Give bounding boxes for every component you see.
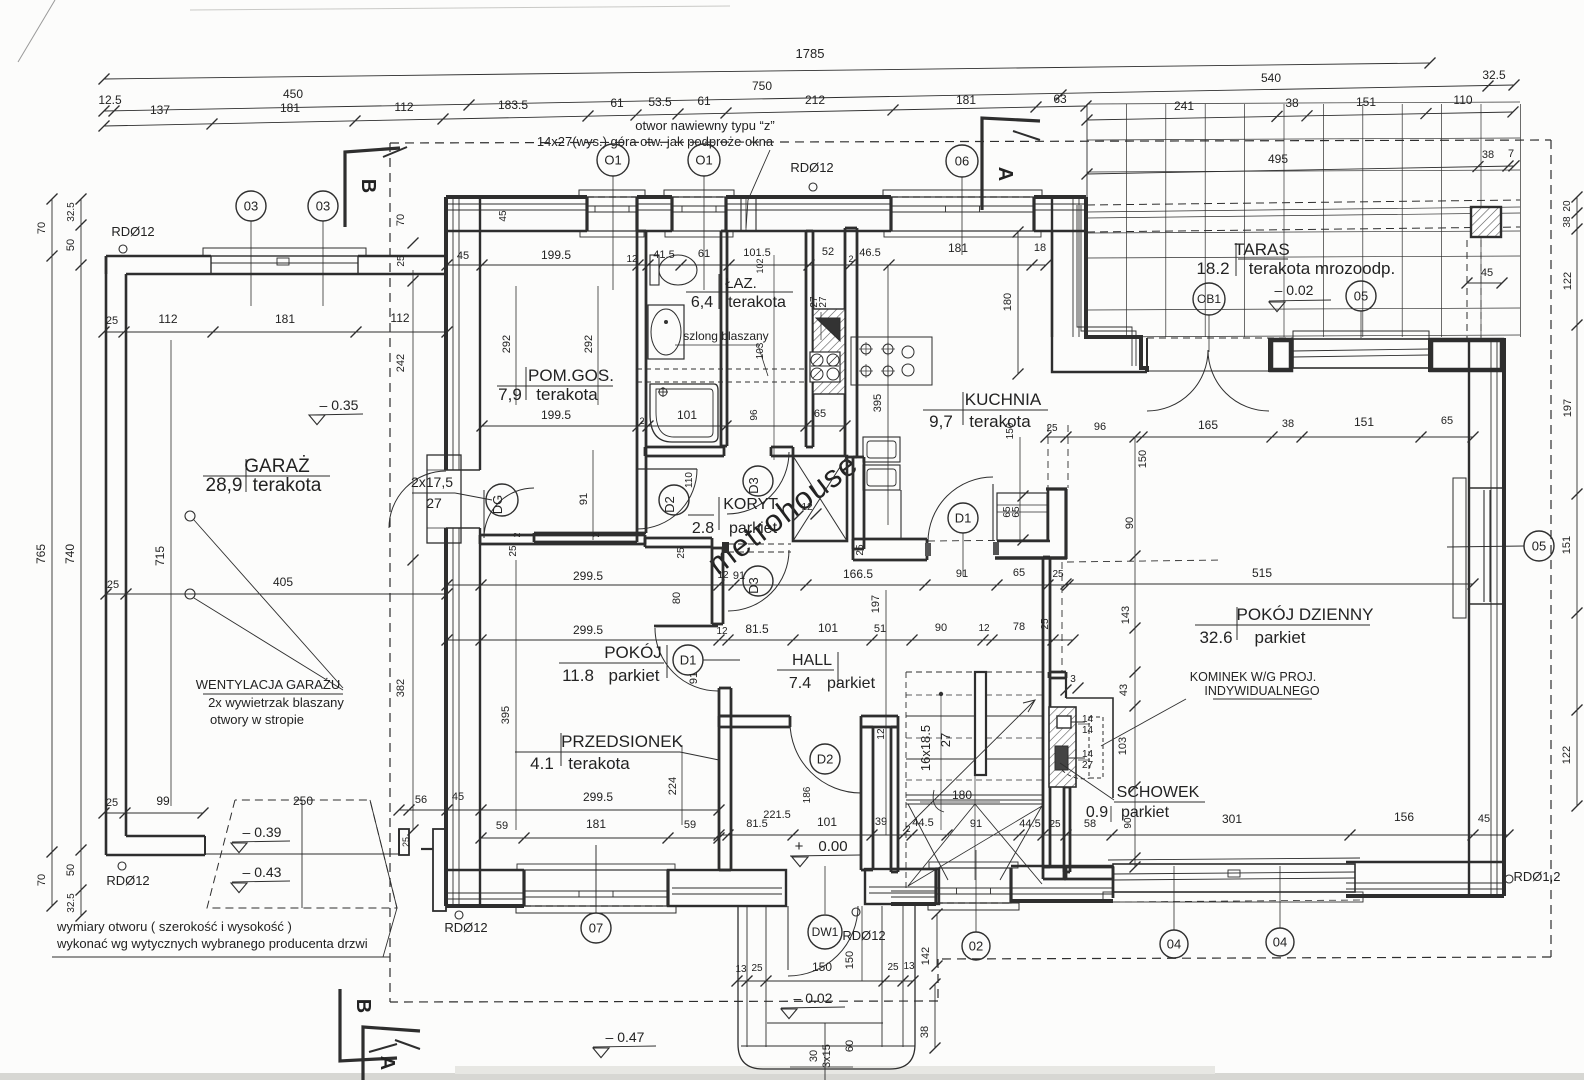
svg-text:221.5: 221.5 — [763, 809, 791, 821]
svg-text:GARAŻ: GARAŻ — [244, 456, 310, 477]
dim chain row2 12.5/450/750/540/32.5 — [104, 85, 1514, 111]
kitchen counter — [851, 337, 932, 385]
south wall schowek part — [1011, 899, 1113, 903]
schowek outline — [1066, 698, 1113, 798]
bubble 07 — [581, 913, 611, 943]
bath room label — [718, 274, 720, 309]
svg-text:450: 450 — [283, 87, 303, 101]
svg-text:183.5: 183.5 — [498, 98, 528, 112]
house west wall — [444, 197, 448, 470]
svg-text:13: 13 — [903, 961, 915, 972]
svg-text:05: 05 — [1354, 289, 1368, 304]
svg-text:9,7: 9,7 — [929, 412, 953, 431]
svg-text:– 0.43: – 0.43 — [243, 864, 282, 880]
door D3 hall — [728, 550, 789, 611]
door D1 kitchen — [928, 477, 993, 542]
svg-text:45: 45 — [452, 791, 464, 803]
svg-text:2: 2 — [848, 254, 853, 264]
svg-text:parkiet: parkiet — [729, 520, 778, 537]
dim chain terrace top 241/38/151/110 — [1087, 112, 1513, 120]
przedsionek north wall — [719, 715, 790, 718]
svg-text:KUCHNIA: KUCHNIA — [965, 390, 1042, 409]
bubble 04 a — [1160, 930, 1188, 958]
svg-text:142: 142 — [920, 947, 932, 965]
svg-text:INDYWIDUALNEGO: INDYWIDUALNEGO — [1204, 684, 1320, 698]
svg-text:POKÓJ DZIENNY: POKÓJ DZIENNY — [1237, 605, 1374, 624]
pokoj dzienny room label — [1236, 607, 1238, 640]
svg-text:45: 45 — [498, 210, 509, 222]
svg-text:27: 27 — [938, 733, 953, 747]
side door arc into garage — [389, 471, 446, 528]
svg-text:DW1: DW1 — [812, 925, 839, 939]
svg-text:30: 30 — [808, 1050, 820, 1062]
svg-text:terakota: terakota — [536, 385, 598, 404]
svg-text:78: 78 — [1013, 621, 1025, 633]
door D1 kitchen leaf — [992, 484, 994, 541]
svg-text:740: 740 — [63, 544, 77, 564]
stairs center line — [974, 775, 976, 880]
stairs winder fan — [908, 804, 975, 886]
koryt X closet — [793, 456, 847, 541]
terrace bottom dashed edge — [1087, 337, 1293, 339]
svg-text:103: 103 — [1117, 737, 1129, 755]
door D2 pomgos-koryt — [637, 468, 697, 470]
svg-text:70: 70 — [395, 214, 407, 226]
svg-text:495: 495 — [1268, 152, 1288, 166]
svg-text:ŁAZ.: ŁAZ. — [725, 275, 757, 292]
svg-text:RDØ12: RDØ12 — [842, 928, 885, 943]
svg-text:65: 65 — [1441, 415, 1453, 427]
svg-text:1785: 1785 — [796, 46, 825, 61]
svg-text:44.5: 44.5 — [1019, 818, 1040, 830]
svg-text:25: 25 — [106, 797, 118, 809]
svg-text:A: A — [994, 167, 1016, 181]
garage interior dim 25/405 — [106, 593, 447, 595]
svg-text:25: 25 — [676, 547, 687, 559]
svg-text:14: 14 — [1082, 725, 1094, 736]
svg-text:25: 25 — [887, 962, 899, 973]
svg-text:91: 91 — [956, 568, 968, 580]
dim row pomgos 199.5 mid — [482, 425, 845, 427]
garage dim 715 — [170, 340, 172, 806]
bubble O1 a — [597, 144, 629, 176]
svg-text:terakota mrozoodp.: terakota mrozoodp. — [1249, 259, 1395, 278]
svg-text:parkiet: parkiet — [608, 666, 659, 685]
svg-text:53.5: 53.5 — [648, 95, 672, 109]
svg-text:D2: D2 — [662, 496, 677, 513]
svg-text:299.5: 299.5 — [573, 569, 603, 583]
svg-text:180: 180 — [1002, 293, 1014, 311]
svg-text:103: 103 — [755, 342, 766, 359]
svg-text:90: 90 — [1123, 817, 1134, 829]
svg-text:03: 03 — [316, 199, 330, 214]
door D2 przedsionek — [790, 722, 861, 793]
svg-text:59: 59 — [496, 820, 508, 832]
svg-text:25: 25 — [401, 837, 411, 847]
terrace dashed lines — [1087, 200, 1520, 205]
kominek leader — [1101, 699, 1186, 746]
svg-text:45: 45 — [457, 250, 469, 262]
svg-text:61: 61 — [610, 96, 624, 110]
svg-text:– 0.02: – 0.02 — [794, 990, 833, 1006]
south wall entry pier right — [865, 869, 939, 904]
south wall SE corner — [1346, 894, 1504, 898]
svg-text:46.5: 46.5 — [859, 247, 880, 259]
dim chain living vert 150/90/143/43/103/90 — [1134, 437, 1136, 867]
svg-text:165: 165 — [1198, 418, 1218, 432]
stairs treads dashed — [906, 694, 1043, 696]
svg-text:199.5: 199.5 — [541, 408, 571, 422]
terrace column hatched — [1471, 207, 1501, 237]
svg-text:PRZEDSIONEK: PRZEDSIONEK — [561, 732, 684, 751]
dim rot 382 west — [412, 560, 414, 830]
svg-text:D1: D1 — [955, 511, 972, 526]
svg-text:299.5: 299.5 — [583, 790, 613, 804]
svg-text:395: 395 — [500, 706, 512, 724]
svg-text:14: 14 — [1082, 714, 1094, 725]
svg-text:122: 122 — [1562, 272, 1574, 290]
svg-text:SCHOWEK: SCHOWEK — [1117, 784, 1200, 801]
svg-text:90: 90 — [1124, 517, 1136, 529]
svg-text:382: 382 — [395, 679, 407, 697]
bubble O1 b — [688, 144, 720, 176]
svg-text:405: 405 — [273, 575, 293, 589]
svg-text:7.4: 7.4 — [789, 675, 811, 692]
svg-text:HALL: HALL — [792, 652, 832, 669]
house east wall — [1502, 338, 1506, 896]
svg-text:32.6: 32.6 — [1199, 628, 1232, 647]
terrace grid — [1086, 104, 1088, 337]
wall pomgos/bath — [636, 231, 639, 533]
svg-text:151: 151 — [1356, 95, 1376, 109]
svg-text:90: 90 — [935, 622, 947, 634]
svg-text:38: 38 — [1282, 418, 1294, 430]
svg-text:POKÓJ: POKÓJ — [604, 643, 662, 662]
svg-text:110: 110 — [684, 472, 695, 488]
svg-text:515: 515 — [1252, 566, 1272, 580]
bubble 03 a — [236, 191, 266, 221]
left dim chain 70/765/70 — [51, 199, 53, 906]
section marker B bottom — [340, 989, 397, 1061]
svg-text:181: 181 — [586, 817, 606, 831]
svg-text:wykonać wg wytycznych wybra: wykonać wg wytycznych wybranego producen… — [56, 936, 368, 951]
svg-text:212: 212 — [805, 93, 825, 107]
svg-text:540: 540 — [1261, 71, 1281, 85]
stair west wall — [890, 727, 893, 872]
stairs direction arrow — [903, 700, 1035, 831]
svg-text:A: A — [376, 1056, 398, 1070]
kitchen-terrace step wall — [1086, 197, 1147, 372]
svg-text:14: 14 — [1082, 749, 1094, 760]
svg-text:32.5: 32.5 — [66, 893, 77, 913]
dim 515 living — [1066, 583, 1473, 585]
svg-text:166.5: 166.5 — [843, 567, 873, 581]
leader trapezoid to note — [370, 800, 397, 957]
svg-text:POM.GOS.: POM.GOS. — [528, 366, 614, 385]
garage vent symbol 1 — [185, 511, 195, 521]
door DW1 entry — [788, 906, 858, 976]
svg-text:45: 45 — [1478, 813, 1490, 825]
stairs landing double line — [906, 799, 1043, 801]
garage room label — [203, 475, 330, 477]
svg-text:63: 63 — [1053, 92, 1067, 106]
svg-text:250: 250 — [293, 794, 313, 808]
dim row kitchen top 52/46.5/181/18 done above; kitchen-living 25/96/165/38/151/65 — [1046, 436, 1473, 438]
svg-text:parkiet: parkiet — [827, 675, 876, 692]
svg-text:6,4: 6,4 — [691, 294, 713, 311]
garage top wall — [106, 255, 211, 258]
svg-text:7: 7 — [1508, 148, 1514, 160]
svg-text:wymiary otworu ( szerokość: wymiary otworu ( szerokość i wysokość ) — [56, 919, 292, 934]
entry porch outline — [738, 906, 915, 1069]
svg-text:otwory w stropie: otwory w stropie — [210, 712, 304, 727]
kitchen/hall wall south — [853, 538, 927, 541]
kitchen hob burners — [861, 344, 871, 354]
svg-text:25: 25 — [396, 255, 407, 267]
bubble 05 terrace — [1346, 281, 1376, 311]
svg-text:25: 25 — [1040, 618, 1051, 630]
svg-text:D3: D3 — [746, 577, 761, 594]
svg-text:292: 292 — [583, 335, 595, 353]
svg-text:25: 25 — [106, 315, 118, 327]
hall room label — [837, 652, 839, 685]
stair entry step rect — [427, 455, 461, 543]
svg-text:50: 50 — [65, 864, 77, 876]
dim rot 197 hall — [885, 590, 887, 835]
svg-text:80: 80 — [671, 592, 683, 604]
svg-text:RDØ12: RDØ12 — [106, 873, 149, 888]
kitchen counter edge line — [900, 490, 902, 540]
svg-text:110: 110 — [1453, 93, 1472, 107]
svg-text:RDØ12: RDØ12 — [790, 160, 833, 175]
bubble 04 b — [1266, 928, 1294, 956]
svg-text:150: 150 — [812, 960, 832, 974]
window 02 stairwell — [928, 903, 1019, 910]
window O1 b — [664, 190, 734, 197]
svg-text:0.00: 0.00 — [818, 838, 847, 855]
svg-text:D3: D3 — [746, 477, 761, 494]
svg-text:szlong blaszany: szlong blaszany — [683, 329, 768, 343]
svg-text:D2: D2 — [817, 752, 834, 767]
svg-text:otwor nawiewny typu “z”: otwor nawiewny typu “z” — [635, 118, 774, 133]
kitchen closet 65x65 — [997, 493, 1047, 540]
svg-text:4.1: 4.1 — [530, 754, 554, 773]
svg-text:12: 12 — [876, 728, 887, 740]
przedsionek room label — [560, 733, 562, 766]
svg-text:61: 61 — [697, 94, 711, 108]
svg-text:38: 38 — [919, 1026, 931, 1038]
door D1 pokoj — [654, 625, 718, 628]
svg-text:parkiet: parkiet — [1254, 628, 1305, 647]
svg-text:12: 12 — [978, 623, 990, 634]
garage door trapezoid dashed — [207, 800, 397, 908]
svg-text:151: 151 — [1354, 415, 1374, 429]
dim row przedsionek 299.5 bottom + 56/45 — [399, 809, 719, 811]
living north wall piers — [1271, 340, 1291, 370]
svg-text:2x17,5: 2x17,5 — [411, 474, 453, 490]
svg-text:05: 05 — [1532, 539, 1546, 554]
svg-text:B: B — [357, 179, 379, 193]
svg-text:242: 242 — [395, 354, 407, 372]
bubble 06 — [946, 145, 978, 177]
svg-text:12: 12 — [717, 570, 729, 581]
house top wall — [446, 195, 587, 199]
svg-text:– 0.02: – 0.02 — [1275, 282, 1314, 298]
svg-text:51: 51 — [874, 623, 886, 635]
terrace dashed vertical near column — [1466, 240, 1468, 338]
svg-text:2: 2 — [591, 532, 601, 537]
svg-text:299.5: 299.5 — [573, 623, 603, 637]
dim rot 224 przedsionek — [681, 745, 683, 825]
bath tub — [650, 384, 718, 442]
svg-text:2.8: 2.8 — [692, 520, 714, 537]
stairs middle wall — [975, 672, 986, 775]
roof outline dashed — [390, 140, 1551, 143]
koryt room label — [718, 497, 720, 530]
fireplace dashed box — [1089, 717, 1103, 778]
terrace dim 45 — [1467, 282, 1502, 284]
dim row window07 59/181/59 — [481, 837, 719, 839]
svg-text:04: 04 — [1167, 937, 1181, 952]
wall bath east / shaft — [805, 231, 808, 447]
svg-text:OB1: OB1 — [1197, 292, 1221, 306]
svg-text:2: 2 — [639, 416, 644, 426]
svg-text:terakota: terakota — [728, 294, 786, 311]
vent opening 14x27 in wall — [741, 197, 756, 231]
svg-text:181: 181 — [956, 93, 976, 107]
svg-text:03: 03 — [244, 199, 258, 214]
svg-text:99: 99 — [156, 794, 170, 808]
svg-text:101: 101 — [677, 408, 697, 422]
stairs treads solid — [906, 715, 1043, 717]
window 04 band living — [1108, 858, 1360, 860]
svg-text:56: 56 — [415, 794, 427, 806]
svg-text:151: 151 — [1561, 536, 1573, 554]
dim chain terrace 495/38/7 — [1087, 166, 1514, 174]
schowek top wall — [1049, 671, 1066, 674]
bubble 03 b — [308, 191, 338, 221]
svg-text:– 0.47: – 0.47 — [606, 1029, 645, 1045]
svg-text:43: 43 — [1118, 684, 1130, 696]
svg-text:102: 102 — [755, 258, 765, 273]
svg-text:WENTYLACJA GARAŻU: WENTYLACJA GARAŻU — [196, 677, 340, 692]
svg-text:terakota: terakota — [969, 412, 1031, 431]
svg-text:39: 39 — [875, 816, 887, 828]
terrace door OB1 opening jambs — [1268, 338, 1270, 372]
svg-text:13: 13 — [735, 964, 747, 975]
window O1 a — [579, 190, 645, 197]
svg-text:RDØ12: RDØ12 — [111, 224, 154, 239]
svg-text:44.5: 44.5 — [912, 817, 933, 829]
svg-text:38: 38 — [1482, 149, 1494, 161]
svg-text:B: B — [352, 999, 374, 1013]
svg-text:395: 395 — [872, 394, 884, 412]
pokoj room label — [666, 645, 668, 678]
porch dims 13 25 150 25 13 — [737, 980, 913, 982]
garage left wall — [105, 256, 108, 855]
svg-text:07: 07 — [589, 921, 603, 936]
dim row hall/koryt 299.5/2/91/166.5/91/65/25 — [447, 584, 1068, 586]
porch steps — [746, 906, 748, 1047]
stair south wall — [891, 902, 936, 906]
svg-text:11.8: 11.8 — [562, 666, 594, 685]
svg-text:150: 150 — [844, 951, 856, 969]
svg-text:150: 150 — [1137, 450, 1149, 468]
leader from note to wall — [746, 150, 770, 228]
kitchen fridge units — [863, 437, 900, 462]
door D3 bath — [727, 452, 789, 514]
svg-text:20: 20 — [1562, 200, 1573, 212]
svg-text:224: 224 — [667, 777, 679, 795]
garage vent symbol 2 — [185, 589, 195, 599]
svg-text:38: 38 — [1562, 216, 1573, 228]
dim rot 292 a — [515, 286, 517, 405]
bubble OB1 — [1193, 283, 1225, 315]
svg-text:241: 241 — [1174, 99, 1194, 113]
section marker A top — [982, 118, 1040, 210]
dim rot 180 kitchen window — [1017, 232, 1019, 374]
svg-text:+: + — [795, 838, 804, 855]
svg-text:101: 101 — [818, 621, 838, 635]
section marker A bottom — [363, 1027, 420, 1080]
svg-text:3: 3 — [1070, 674, 1076, 685]
svg-text:65: 65 — [1013, 567, 1025, 579]
svg-text:D1: D1 — [680, 653, 697, 668]
svg-text:112: 112 — [158, 312, 177, 326]
fireplace kominek hatched — [1049, 707, 1076, 787]
right dim chain 20/38/122/197/151/122 — [1576, 197, 1578, 806]
bath toilet — [659, 255, 697, 285]
svg-text:715: 715 — [153, 546, 167, 566]
bubble 02 — [962, 932, 990, 960]
dim row south main 81.5/101/39/2/44.5/91/44.5/25/58/301/156/45 — [719, 834, 1508, 836]
svg-text:181: 181 — [280, 101, 300, 115]
przedsionek west wall — [718, 716, 721, 870]
svg-text:TARAS: TARAS — [1234, 240, 1289, 259]
svg-text:50: 50 — [65, 239, 77, 251]
scan artifact top edge line — [190, 6, 730, 10]
svg-text:12: 12 — [626, 254, 638, 265]
kitchen room label — [962, 392, 964, 425]
przedsionek east wall — [860, 727, 863, 870]
pokoj east wall upper stub — [718, 688, 721, 716]
svg-text:70: 70 — [36, 222, 48, 234]
svg-text:04: 04 — [1273, 935, 1287, 950]
svg-text:137: 137 — [150, 103, 170, 117]
window 05 terrace (north) — [1293, 331, 1429, 339]
svg-text:112: 112 — [394, 100, 413, 114]
svg-text:18: 18 — [1034, 242, 1046, 254]
svg-text:91: 91 — [733, 570, 745, 582]
svg-text:765: 765 — [34, 544, 48, 564]
svg-text:3x15: 3x15 — [821, 1044, 833, 1068]
svg-text:41.5: 41.5 — [653, 249, 674, 261]
dim rot 150 kitchen closet — [1019, 437, 1021, 540]
svg-text:122: 122 — [1561, 746, 1573, 764]
svg-text:27: 27 — [426, 495, 442, 511]
svg-text:12.5: 12.5 — [98, 93, 122, 107]
svg-text:91: 91 — [688, 672, 700, 684]
stairs dashed border — [906, 671, 1046, 673]
svg-text:25: 25 — [508, 545, 519, 557]
wall bath niche divider — [720, 231, 723, 446]
svg-text:06: 06 — [955, 154, 969, 169]
svg-text:RDØ1,2: RDØ1,2 — [1514, 869, 1561, 884]
dashed passage lines kitchen-living — [928, 540, 1046, 541]
svg-text:O1: O1 — [604, 153, 621, 168]
svg-text:25: 25 — [751, 963, 763, 974]
kitchen west wall — [844, 228, 847, 457]
